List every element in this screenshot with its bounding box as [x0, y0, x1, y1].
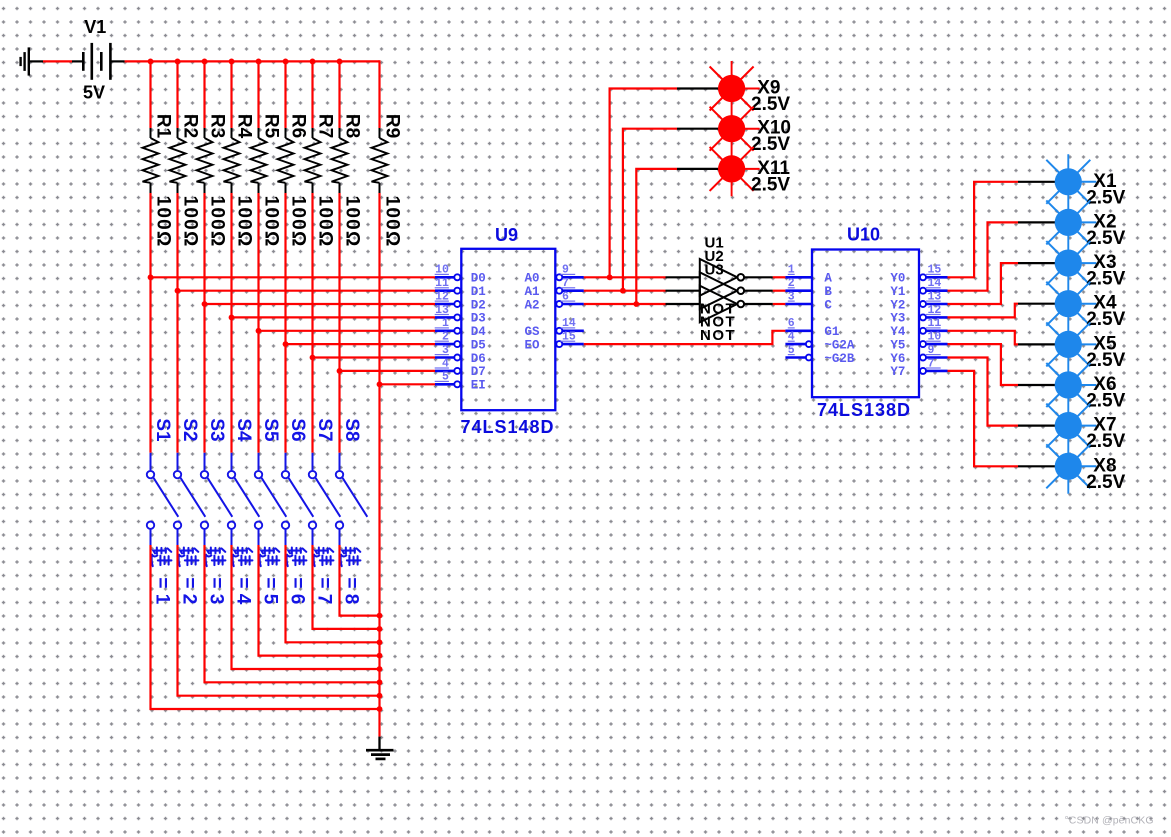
- junction R8 column / D7 wire: [337, 368, 343, 374]
- switch S1: [147, 453, 179, 545]
- svg-text:R1: R1: [152, 114, 173, 139]
- wire U10 Y7 to lamp X8: [948, 371, 1019, 466]
- svg-text:R5: R5: [260, 114, 281, 139]
- wire V+ to R4: [230, 61, 232, 128]
- wire NOT U2 output to U10 pin 2: [744, 290, 772, 292]
- U10 pin 12 (Y3): [890, 304, 947, 326]
- junction ground bus / S6: [377, 639, 383, 645]
- wire R4 to node/switch S4: [230, 193, 232, 453]
- svg-text:100Ω: 100Ω: [234, 196, 255, 248]
- svg-text:2.5V: 2.5V: [1086, 391, 1125, 412]
- label key = 2 (S2): [178, 547, 199, 604]
- svg-text:S6: S6: [287, 418, 308, 441]
- svg-text:= 5: = 5: [259, 577, 280, 604]
- junction R9 column / EI wire: [377, 381, 383, 387]
- svg-text:100Ω: 100Ω: [153, 196, 174, 248]
- U10 pin 4 (~G2A): [785, 331, 855, 353]
- svg-text:Y7: Y7: [890, 365, 905, 379]
- wire vertical ray line through X9-X11: [731, 61, 733, 196]
- svg-text:2.5V: 2.5V: [1086, 269, 1125, 290]
- junction top bus / R1: [148, 59, 154, 65]
- junction ground bus / S2: [377, 693, 383, 699]
- U10 pin 6 (G1): [785, 317, 839, 339]
- U10 pin 2 (B): [785, 277, 832, 299]
- U10 pin 13 (Y2): [890, 290, 947, 312]
- label key = 8 (S8): [340, 547, 361, 604]
- svg-text:Y0: Y0: [890, 272, 905, 286]
- wire node R2 to U9 D1: [178, 290, 436, 292]
- svg-text:74LS138D: 74LS138D: [817, 400, 911, 420]
- svg-text:S4: S4: [233, 418, 254, 442]
- svg-text:D4: D4: [471, 325, 487, 339]
- lamp X2 2.5V: [1046, 200, 1096, 244]
- resistor R2 100&#937;: [170, 114, 201, 248]
- svg-text:2.5V: 2.5V: [751, 94, 790, 115]
- svg-text:100Ω: 100Ω: [207, 196, 228, 248]
- U10 pin 3 (C): [785, 290, 832, 312]
- lamp X1 2.5V: [1046, 160, 1096, 204]
- inverter U3 (NOT): [700, 286, 744, 323]
- lamp X8 2.5V: [1046, 444, 1096, 488]
- svg-text:= 1: = 1: [151, 577, 172, 604]
- svg-text:S8: S8: [341, 418, 362, 441]
- wire R8 to node/switch S8: [338, 193, 340, 453]
- inverter U2 (NOT): [700, 272, 744, 309]
- wire V+ to R8: [338, 61, 340, 128]
- switch S8: [336, 453, 368, 545]
- label key = 5 (S5): [259, 547, 280, 604]
- svg-text:= 3: = 3: [205, 577, 226, 604]
- svg-text:D2: D2: [471, 298, 486, 312]
- wire S2 to ground bus: [178, 545, 380, 696]
- junction ground bus / S8: [377, 613, 383, 619]
- junction R7 column / D6 wire: [310, 355, 316, 361]
- svg-text:R9: R9: [381, 114, 402, 138]
- junction R6 column / D5 wire: [283, 341, 289, 347]
- svg-text:2.5V: 2.5V: [1086, 228, 1125, 249]
- svg-text:74LS148D: 74LS148D: [461, 417, 555, 437]
- resistor R4 100&#937;: [224, 114, 255, 248]
- wire U10 Y0 to lamp X1: [948, 182, 1019, 277]
- junction top bus / R8: [337, 59, 343, 65]
- resistor R5 100&#937;: [251, 114, 282, 248]
- label key = 3 (S3): [205, 547, 226, 604]
- wire V+ to R2: [176, 61, 178, 128]
- svg-text:2.5V: 2.5V: [1086, 431, 1125, 452]
- IC U10 74LS138D body: [812, 250, 919, 398]
- svg-text:2.5V: 2.5V: [1086, 187, 1125, 208]
- wire U10 Y3 to lamp X4: [948, 304, 1019, 318]
- lamp X7 2.5V: [1046, 404, 1096, 448]
- svg-text:= 6: = 6: [286, 577, 307, 604]
- U9 pin 14 (GS): [525, 317, 584, 339]
- wire S8 to ground bus: [340, 545, 380, 616]
- wire U10 Y1 to lamp X2: [948, 222, 1019, 290]
- U10 pin 10 (Y5): [890, 331, 947, 353]
- resistor R7 100&#937;: [305, 114, 336, 248]
- U10 pin 11 (Y4): [890, 317, 947, 339]
- U9 pin 9 (A0): [525, 264, 584, 286]
- resistor R8 100&#937;: [332, 114, 363, 248]
- junction R5 column / D4 wire: [256, 328, 262, 334]
- svg-text:100Ω: 100Ω: [382, 196, 403, 248]
- U10 pin 5 (~G2B): [785, 344, 855, 366]
- wire node A0 up to lamp X9: [610, 89, 677, 278]
- lamp X11 2.5V: [710, 147, 760, 191]
- junction top bus / R7: [310, 59, 316, 65]
- wire S1 to ground bus: [151, 545, 380, 709]
- wire U9 A2 to NOT U3 input: [584, 303, 666, 305]
- svg-text:2.5V: 2.5V: [751, 134, 790, 155]
- switch S7: [309, 453, 341, 545]
- svg-text:Y2: Y2: [890, 298, 905, 312]
- svg-text:°CSDN @pēnCKG: °CSDN @pēnCKG: [1065, 815, 1154, 827]
- junction top bus / R3: [202, 59, 208, 65]
- junction top bus / R5: [256, 59, 262, 65]
- wire U10 Y5 to lamp X6: [948, 344, 1019, 385]
- U10 pin 14 (Y1): [890, 277, 947, 299]
- switch S2: [174, 453, 206, 545]
- svg-text:A2: A2: [525, 298, 540, 312]
- wire R2 to node/switch S2: [176, 193, 178, 453]
- svg-text:EO: EO: [525, 338, 541, 352]
- junction R4 column / D3 wire: [229, 315, 235, 321]
- svg-text:Y5: Y5: [890, 338, 905, 352]
- junction ground bus / S4: [377, 666, 383, 672]
- junction A2 wire / X11 branch: [633, 301, 639, 307]
- svg-text:D6: D6: [471, 352, 486, 366]
- label key = 6 (S6): [286, 547, 307, 604]
- U9 pin 13 (D3): [435, 304, 486, 326]
- svg-text:U9: U9: [495, 225, 518, 245]
- svg-text:100Ω: 100Ω: [342, 196, 363, 248]
- wire S3 to ground bus: [205, 545, 380, 682]
- wire S4 to ground bus: [232, 545, 380, 669]
- svg-text:A0: A0: [525, 272, 540, 286]
- U10 pin 15 (Y0): [890, 264, 947, 286]
- label key = 7 (S7): [313, 547, 334, 604]
- svg-text:G1: G1: [824, 325, 839, 339]
- svg-text:GS: GS: [525, 325, 541, 339]
- lamp X3 2.5V: [1046, 241, 1096, 285]
- svg-text:2.5V: 2.5V: [1086, 350, 1125, 371]
- svg-text:= 8: = 8: [340, 577, 361, 604]
- U9 pin 6 (A2): [525, 290, 584, 312]
- wire V+ to R9 (bus corner): [378, 61, 379, 128]
- wire U10 Y4 to lamp X5: [948, 331, 1019, 345]
- junction A1 wire / X10 branch: [620, 288, 626, 294]
- svg-text:S7: S7: [314, 418, 335, 441]
- wire node R7 to U9 D6: [313, 356, 436, 358]
- svg-text:R2: R2: [179, 114, 200, 138]
- svg-text:Y3: Y3: [890, 312, 905, 326]
- ground (bottom): [366, 737, 394, 759]
- wire U9 EO to U10 G1: [584, 331, 786, 344]
- lamp X5 2.5V: [1046, 322, 1096, 366]
- junction top bus / R2: [175, 59, 181, 65]
- lamp X9 2.5V: [710, 67, 760, 111]
- svg-text:A1: A1: [525, 285, 540, 299]
- U9 pin 11 (D1): [435, 277, 486, 299]
- wire U10 Y6 to lamp X7: [948, 358, 1019, 426]
- ground (power ground, left of V1): [21, 47, 43, 75]
- IC U9 74LS148D body: [461, 249, 555, 410]
- svg-text:EI: EI: [471, 379, 486, 393]
- svg-text:D5: D5: [471, 338, 486, 352]
- junction top bus / R6: [283, 59, 289, 65]
- U10 pin 7 (Y7): [890, 357, 947, 379]
- junction A0 wire / X9 branch: [607, 274, 613, 280]
- wire R6 to node/switch S6: [284, 193, 286, 453]
- svg-text:Y6: Y6: [890, 352, 905, 366]
- wire R9 to ground bus (vertical): [378, 193, 380, 737]
- svg-text:S2: S2: [179, 418, 200, 441]
- svg-text:2.5V: 2.5V: [751, 174, 790, 195]
- junction top bus / R4: [229, 59, 235, 65]
- U9 pin 7 (A1): [525, 277, 584, 299]
- svg-text:D1: D1: [471, 285, 486, 299]
- U9 pin 3 (D6): [435, 344, 486, 366]
- wire R1 to node/switch S1: [149, 193, 151, 453]
- svg-text:D7: D7: [471, 365, 486, 379]
- wire U9 A0 to NOT U1 input: [584, 276, 666, 278]
- wire R3 to node/switch S3: [203, 193, 205, 453]
- wire node R4 to U9 D3: [232, 316, 436, 318]
- svg-text:D3: D3: [471, 312, 486, 326]
- switch S4: [228, 453, 259, 545]
- svg-text:5V: 5V: [83, 83, 105, 103]
- svg-text:Y4: Y4: [890, 325, 906, 339]
- wire R7 to node/switch S7: [311, 193, 313, 453]
- svg-text:U10: U10: [847, 225, 880, 245]
- lamp X4 2.5V: [1046, 282, 1096, 326]
- junction ground bus / S5: [377, 653, 383, 659]
- wire U10 Y2 to lamp X3: [948, 263, 1019, 304]
- svg-text:~G2B: ~G2B: [824, 352, 855, 366]
- junction R3 column / D2 wire: [202, 301, 208, 307]
- resistor R6 100&#937;: [278, 114, 309, 248]
- U9 pin 1 (D4): [435, 317, 487, 339]
- wire node A1 up to lamp X10: [623, 129, 677, 291]
- U9 pin 15 (EO): [525, 331, 584, 353]
- svg-text:U3: U3: [705, 261, 724, 278]
- svg-text:R7: R7: [314, 114, 335, 138]
- svg-text:R6: R6: [287, 114, 308, 138]
- svg-text:NOT: NOT: [700, 327, 736, 344]
- wire V+ to R3: [203, 61, 205, 128]
- lamp X10 2.5V: [710, 107, 760, 151]
- resistor R3 100&#937;: [197, 114, 228, 248]
- U9 pin 4 (D7): [435, 357, 486, 379]
- svg-text:D0: D0: [471, 272, 486, 286]
- junction ground bus / S7: [377, 626, 383, 632]
- wire V+ to R6: [284, 61, 286, 128]
- svg-text:100Ω: 100Ω: [315, 196, 336, 248]
- U9 pin 2 (D5): [435, 331, 486, 353]
- svg-text:100Ω: 100Ω: [288, 196, 309, 248]
- svg-text:2.5V: 2.5V: [1086, 309, 1125, 330]
- junction ground bus / S1: [377, 706, 383, 712]
- svg-text:~G2A: ~G2A: [824, 338, 855, 352]
- svg-text:C: C: [824, 298, 832, 312]
- svg-text:R4: R4: [233, 114, 254, 139]
- switch S5: [255, 453, 286, 545]
- switch S6: [282, 453, 314, 545]
- svg-text:R3: R3: [206, 114, 227, 138]
- svg-text:= 7: = 7: [313, 577, 334, 604]
- switch S3: [201, 453, 233, 545]
- inverter U1 (NOT): [700, 259, 744, 296]
- wire U9 A1 to NOT U2 input: [584, 290, 666, 292]
- U9 pin 5 (EI): [435, 371, 486, 393]
- svg-text:Y1: Y1: [890, 285, 905, 299]
- wire R5 to node/switch S5: [257, 193, 259, 453]
- svg-text:= 4: = 4: [232, 577, 253, 604]
- wire S5 to ground bus: [259, 545, 380, 656]
- svg-text:S1: S1: [152, 418, 173, 442]
- svg-text:S5: S5: [260, 418, 281, 442]
- junction R2 column / D1 wire: [175, 288, 181, 294]
- resistor R9 100&#937;: [372, 114, 403, 248]
- svg-text:V1: V1: [84, 17, 106, 37]
- U9 pin 10 (D0): [435, 264, 486, 286]
- wire node R3 to U9 D2: [205, 303, 436, 305]
- wire top power bus: [125, 60, 380, 62]
- svg-text:2.5V: 2.5V: [1086, 472, 1125, 493]
- label key = 1 (S1): [151, 547, 172, 604]
- svg-text:A: A: [824, 272, 832, 286]
- wire V+ to R1: [149, 61, 151, 128]
- U10 pin 1 (A): [785, 264, 832, 286]
- svg-text:B: B: [824, 285, 832, 299]
- wire node R6 to U9 D5: [286, 343, 436, 345]
- wire ground to V1: [43, 60, 72, 62]
- battery V1 5V: [72, 17, 125, 103]
- junction R1 column / D0 wire: [148, 274, 154, 280]
- svg-text:100Ω: 100Ω: [261, 196, 282, 248]
- wire vertical ray line through X1-X8: [1067, 154, 1069, 494]
- wire node R8 to U9 D7: [340, 370, 436, 372]
- wire node A2 up to lamp X11: [636, 169, 677, 304]
- label key = 4 (S4): [232, 547, 253, 604]
- U9 pin 12 (D2): [435, 290, 486, 312]
- svg-text:R8: R8: [341, 114, 362, 138]
- wire node R1 to U9 D0: [151, 276, 436, 278]
- resistor R1 100&#937;: [143, 114, 174, 248]
- wire NOT U3 output to U10 pin 3: [744, 303, 772, 305]
- svg-text:= 2: = 2: [178, 577, 199, 604]
- wire V+ to R7: [311, 61, 313, 128]
- wire S6 to ground bus: [286, 545, 380, 642]
- wire node R5 to U9 D4: [259, 330, 436, 332]
- wire node R9 to U9 EI: [380, 383, 436, 385]
- lamp X6 2.5V: [1046, 363, 1096, 407]
- wire S7 to ground bus: [313, 545, 380, 629]
- junction ground bus / S3: [377, 679, 383, 685]
- svg-text:100Ω: 100Ω: [180, 196, 201, 248]
- U10 pin 9 (Y6): [890, 344, 947, 366]
- wire V+ to R5: [257, 61, 259, 128]
- wire NOT U1 output to U10 pin 1: [744, 276, 772, 278]
- svg-text:S3: S3: [206, 418, 227, 441]
